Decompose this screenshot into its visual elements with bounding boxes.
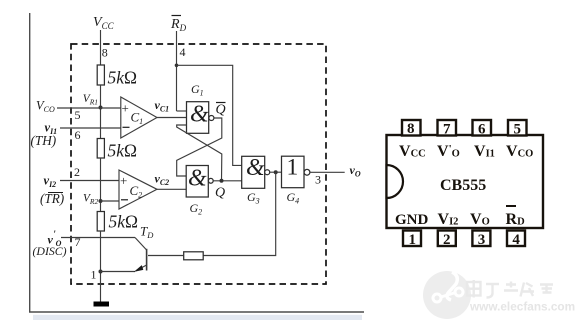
wire C1 out: [157, 117, 187, 119]
wire Qbar feedback to G2: [177, 118, 222, 176]
svg-text:8: 8: [407, 121, 415, 137]
svg-text:G3: G3: [247, 190, 260, 206]
svg-text:3: 3: [478, 232, 486, 248]
op-amp C1 comparator: [121, 97, 157, 138]
svg-text:CB555: CB555: [440, 177, 486, 194]
svg-text:&: &: [188, 166, 207, 192]
watermark chinese chars: [467, 280, 553, 298]
svg-text:VR2: VR2: [83, 193, 98, 207]
svg-text:Q: Q: [215, 186, 225, 201]
svg-text:vO: vO: [350, 163, 361, 179]
frame left axis line: [29, 13, 31, 312]
svg-text:www.elecfans.com: www.elecfans.com: [469, 300, 575, 314]
svg-text:4: 4: [180, 45, 186, 59]
svg-text:6: 6: [478, 122, 486, 138]
node RD branch dot: [175, 64, 179, 68]
svg-text:8: 8: [102, 46, 108, 60]
svg-text:RD: RD: [170, 17, 187, 33]
wire pin2 TR input: [60, 180, 119, 182]
svg-text:G1: G1: [191, 82, 204, 98]
svg-text:+: +: [120, 173, 127, 188]
resistor R2 5k: [97, 139, 104, 159]
buffer G4: [282, 156, 305, 188]
nand G3: [242, 156, 265, 188]
pin box 4: [507, 231, 525, 247]
wire output pin3: [310, 171, 345, 173]
svg-text:7: 7: [75, 235, 81, 249]
node G3 out dot: [274, 170, 278, 174]
wire node VR2 to C2 minus: [101, 200, 120, 202]
pin box 7: [438, 120, 457, 136]
resistor base RB: [184, 252, 204, 260]
wire G3out down to base resistor: [203, 172, 276, 255]
svg-text:VR1: VR1: [83, 93, 98, 107]
wire R3 to pin7 junction and down to pin1: [100, 231, 102, 302]
svg-text:(TH): (TH): [31, 133, 57, 148]
svg-text:(DISC): (DISC): [33, 244, 67, 258]
pin box 3: [472, 231, 490, 247]
bubble G2: [208, 178, 213, 183]
wire G3 out to G4: [270, 171, 282, 173]
collector diagonal: [135, 238, 147, 251]
bubble G4: [304, 169, 310, 175]
wire pin5 VCO input: [57, 107, 121, 109]
svg-text:2: 2: [443, 232, 451, 248]
wire RD vertical: [176, 31, 178, 111]
wire RD branch to G3: [177, 65, 242, 165]
svg-text:VCC: VCC: [93, 15, 115, 31]
svg-text:1: 1: [287, 155, 299, 181]
nand G2: [186, 166, 208, 198]
frame bottom line: [29, 311, 364, 313]
wire RD into G1: [177, 110, 187, 112]
wire VCC rail vertical: [100, 30, 102, 66]
wire pin1 to emitter: [101, 271, 136, 273]
bubble G1: [209, 116, 214, 121]
emitter diagonal with arrow: [136, 265, 147, 271]
package notch: [387, 165, 404, 198]
resistor R1 5k: [97, 65, 104, 85]
svg-text:5kΩ: 5kΩ: [109, 212, 139, 232]
resistor R3 5k: [97, 212, 104, 232]
svg-text:1: 1: [91, 268, 97, 282]
bubble G3: [265, 170, 270, 175]
watermark logo circle: [423, 271, 471, 319]
svg-text:7: 7: [443, 122, 451, 138]
transistor TD: [146, 249, 148, 271]
svg-text:G2: G2: [190, 201, 203, 217]
wire R2 to node VR2: [100, 158, 102, 212]
wire RB to base: [148, 255, 184, 257]
op-amp C2 comparator: [119, 170, 157, 209]
svg-text:5: 5: [514, 122, 522, 138]
node pin1 dot: [99, 270, 103, 274]
svg-text:6: 6: [75, 128, 81, 142]
pin box 2: [438, 231, 456, 247]
dashed IC boundary box: [71, 44, 326, 284]
svg-text:+: +: [122, 101, 129, 116]
svg-text:4: 4: [512, 232, 520, 248]
svg-text:(TR): (TR): [40, 191, 64, 206]
svg-text:2: 2: [74, 165, 80, 179]
node VR1 dot: [99, 106, 103, 110]
svg-text:Q: Q: [216, 103, 226, 118]
svg-text:vC2: vC2: [155, 172, 170, 188]
package body CB555: [387, 135, 544, 228]
svg-text:5kΩ: 5kΩ: [108, 68, 138, 88]
svg-text:1: 1: [409, 232, 417, 248]
pin box 6: [473, 120, 492, 136]
svg-text:vC1: vC1: [155, 98, 170, 114]
svg-text:5: 5: [75, 108, 81, 122]
svg-text:vI2: vI2: [44, 174, 57, 190]
wire C2 out: [157, 188, 186, 190]
svg-text:5kΩ: 5kΩ: [108, 141, 138, 161]
node VR2 dot: [99, 199, 103, 203]
wire Q feedback to G1: [177, 125, 222, 181]
pin box 8: [402, 120, 421, 136]
svg-text:VCO: VCO: [36, 99, 55, 115]
pin box 5: [508, 120, 527, 136]
ground: [94, 302, 110, 307]
wire R1 to node VR1: [100, 85, 102, 139]
wire pin6 TH input: [60, 127, 121, 129]
wire pin7 DISC input: [61, 237, 135, 239]
svg-text:3: 3: [315, 173, 321, 187]
node Q dot: [220, 179, 224, 183]
svg-text:C1: C1: [131, 110, 144, 127]
svg-text:C2: C2: [130, 183, 143, 200]
bottom blue band: [33, 315, 362, 320]
pin box 1: [403, 231, 421, 247]
svg-text:&: &: [246, 155, 265, 181]
svg-text:&: &: [190, 102, 209, 128]
svg-text:GND: GND: [395, 212, 429, 228]
wire G2 out to G3: [213, 180, 242, 182]
svg-text:G4: G4: [287, 190, 300, 206]
nand G1: [187, 102, 209, 134]
svg-text:TD: TD: [140, 224, 154, 241]
